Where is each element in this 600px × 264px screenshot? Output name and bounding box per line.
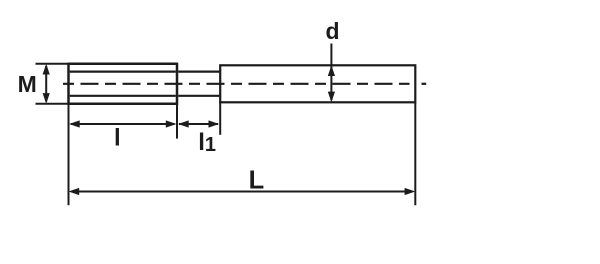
- neck section: [178, 72, 220, 96]
- centerline (dash-dot axis): [63, 83, 426, 85]
- thread root lines: [70, 72, 176, 96]
- thread end line: [176, 63, 179, 105]
- L dimension line: [69, 188, 416, 195]
- M dimension extension lines: [36, 64, 69, 104]
- right extension line: [414, 102, 416, 205]
- threaded section outline: [69, 63, 178, 105]
- l dimension line: [69, 120, 177, 127]
- svg-text:d: d: [325, 18, 339, 44]
- thread-end extension line: [176, 105, 178, 139]
- M dimension arrow: [43, 64, 50, 104]
- svg-text:L: L: [249, 166, 265, 194]
- shank section outline: [220, 65, 415, 102]
- shank-corner extension line: [219, 102, 221, 135]
- d dimension arrow: [328, 44, 335, 103]
- left extension line: [68, 104, 70, 205]
- l1 dimension line: [178, 120, 219, 127]
- svg-text:l1: l1: [198, 129, 216, 156]
- svg-text:l: l: [114, 124, 121, 151]
- svg-text:M: M: [18, 71, 37, 97]
